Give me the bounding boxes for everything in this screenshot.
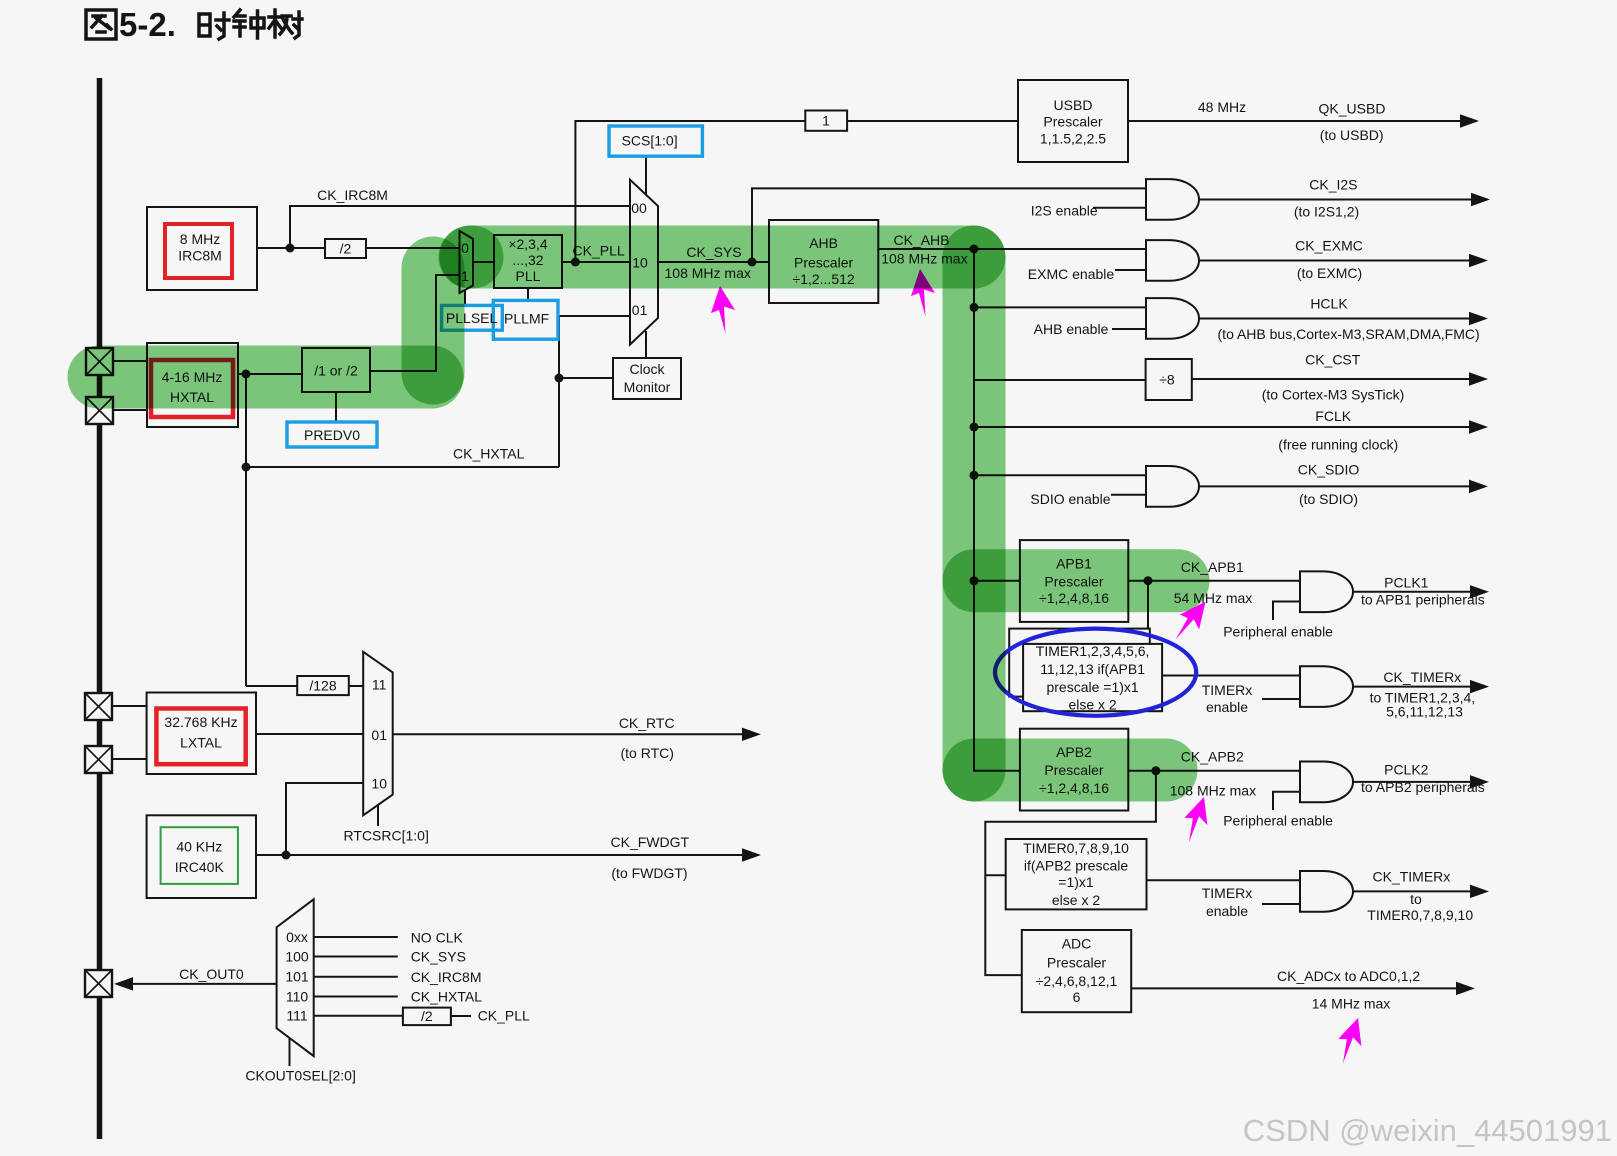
arrow CK_CST <box>1470 374 1485 385</box>
magenta arrow CK_APB2 <box>1184 797 1207 842</box>
svg-text:32.768 KHz: 32.768 KHz <box>164 714 237 730</box>
green highlight path <box>99 257 1178 770</box>
svg-text:11,12,13 if(APB1: 11,12,13 if(APB1 <box>1040 661 1145 677</box>
gate TIMERx0 <box>1300 871 1353 912</box>
gate TIMERx1 <box>1300 666 1353 707</box>
svg-text:CK_OUT0: CK_OUT0 <box>179 966 244 982</box>
box IRC8M outer <box>147 207 257 290</box>
svg-text:LXTAL: LXTAL <box>180 735 222 751</box>
TITLE <box>86 6 302 43</box>
wire PCLK2 enable stub <box>1273 792 1300 810</box>
mux PLLSEL (small) <box>460 231 474 293</box>
wire CK_APB1 down to TIMER1 box <box>1147 581 1149 629</box>
svg-text:÷8: ÷8 <box>1159 372 1175 388</box>
svg-text:CK_FWDGT: CK_FWDGT <box>611 834 690 850</box>
svg-text:÷2,4,6,8,12,1: ÷2,4,6,8,12,1 <box>1036 973 1118 989</box>
svg-text:TIMER0,7,8,9,10: TIMER0,7,8,9,10 <box>1023 840 1129 856</box>
wire PCLK1 gate output <box>1352 591 1472 593</box>
svg-text:if(APB2 prescale: if(APB2 prescale <box>1024 858 1128 874</box>
box /128 <box>297 676 349 695</box>
svg-text:8 MHz: 8 MHz <box>180 231 220 247</box>
wire to divide-by-8 <box>974 379 1146 381</box>
wire /2 bottom output to CK_PLL label <box>451 1015 471 1017</box>
arrow CK_TIMERx 1 <box>1471 681 1486 692</box>
svg-text:PREDV0: PREDV0 <box>304 427 360 443</box>
box clock monitor <box>613 358 681 399</box>
svg-text:prescale =1)x1: prescale =1)x1 <box>1046 679 1138 695</box>
wire TIMERx gate 1 output <box>1352 686 1472 688</box>
box TIMER1 front <box>1023 644 1162 711</box>
svg-text:FCLK: FCLK <box>1315 408 1351 424</box>
svg-text:else x 2: else x 2 <box>1052 892 1100 908</box>
svg-text:enable: enable <box>1206 903 1248 919</box>
wire HXTAL column down to /128 <box>245 374 247 686</box>
svg-text:5-2.: 5-2. <box>119 6 176 43</box>
wire TIMERx enable stub 2 <box>1262 903 1300 905</box>
wire /1or/2 to small mux input 1 <box>370 275 460 371</box>
arrow CK_OUT0 <box>117 979 132 990</box>
svg-text:SCS[1:0]: SCS[1:0] <box>622 133 678 149</box>
wire EXMC gate output <box>1199 260 1471 262</box>
wire CK_AHB output to EXMC gate <box>878 248 1146 250</box>
wire APB1 input <box>974 580 1020 582</box>
svg-text:48 MHz: 48 MHz <box>1198 99 1246 115</box>
wire SDIO gate output <box>1199 485 1471 487</box>
svg-text:NO CLK: NO CLK <box>411 929 464 945</box>
svg-text:Clock: Clock <box>629 361 665 377</box>
green highlight APB2 branch <box>974 739 1166 802</box>
wire LXTAL output to RTC mux 01 <box>256 733 363 735</box>
svg-text:TIMERx: TIMERx <box>1202 885 1253 901</box>
gate SDIO <box>1146 466 1199 507</box>
arrow CK_EXMC <box>1470 255 1485 266</box>
pin xbox HXTAL bottom <box>86 397 113 424</box>
svg-text:11: 11 <box>372 677 387 693</box>
wire HXTAL pin stubs <box>113 361 147 410</box>
svg-text:CK_TIMERx: CK_TIMERx <box>1373 868 1451 884</box>
wire CK_RTC output <box>393 733 744 735</box>
svg-text:RTCSRC[1:0]: RTCSRC[1:0] <box>344 827 429 843</box>
svg-text:1,1.5,2,2.5: 1,1.5,2,2.5 <box>1040 131 1106 147</box>
wire /1or/2 to PREDV0 <box>335 392 337 422</box>
wire AHB trunk vertical with elbow to APB2 <box>974 249 1020 771</box>
arrow PCLK2 <box>1471 777 1486 788</box>
box /2 bottom <box>403 1008 451 1026</box>
svg-text:10: 10 <box>371 776 387 792</box>
svg-text:CK_SDIO: CK_SDIO <box>1298 461 1360 477</box>
svg-text:CK_SYS: CK_SYS <box>411 948 466 964</box>
svg-text:1: 1 <box>822 113 830 129</box>
box divide-by-8 <box>1146 359 1192 400</box>
wire CKOUT0 mux input rows <box>314 937 398 997</box>
green highlight riser <box>402 268 465 373</box>
box IRC40K outer <box>147 815 256 898</box>
wire IRC40K output / CK_FWDGT <box>256 854 744 856</box>
arrow HCLK <box>1470 313 1485 324</box>
magenta arrow CK_SYS <box>711 286 735 334</box>
box PLLSEL blue <box>442 305 503 330</box>
green highlight HXTAL band <box>99 346 432 409</box>
svg-text:PLLMF: PLLMF <box>504 311 549 327</box>
wire RTCSRC stub <box>377 805 379 826</box>
wire IRC40K branch up to RTC mux 10 <box>286 783 363 855</box>
svg-text:/2: /2 <box>340 241 352 257</box>
magenta arrows <box>711 269 1361 1063</box>
svg-text:Prescaler: Prescaler <box>1047 954 1106 970</box>
wire AHB enable stub <box>1112 328 1146 330</box>
gate EXMC <box>1146 240 1199 281</box>
wire CK_APB2 output to PCLK2 gate <box>1128 770 1300 772</box>
wire TIMERx enable stub 1 <box>1262 698 1300 700</box>
svg-text:5,6,11,12,13: 5,6,11,12,13 <box>1386 703 1463 719</box>
svg-text:EXMC enable: EXMC enable <box>1028 266 1115 282</box>
wire CK_SYS branch up to I2S gate <box>752 188 1146 262</box>
svg-text:USBD: USBD <box>1054 97 1093 113</box>
wire EXMC enable stub <box>1115 269 1146 271</box>
svg-text:CKOUT0SEL[2:0]: CKOUT0SEL[2:0] <box>245 1068 356 1084</box>
wire CK_APB1 output to PCLK1 gate <box>1128 580 1300 582</box>
wire CK_HXTAL horizontal <box>246 466 559 468</box>
box ADC prescaler <box>1022 930 1131 1012</box>
wire SDIO enable stub <box>1111 494 1146 496</box>
svg-text:ADC: ADC <box>1062 936 1092 952</box>
svg-text:IRC40K: IRC40K <box>175 859 225 875</box>
svg-text:/128: /128 <box>309 678 336 694</box>
wire CKOUT0SEL stub <box>289 1038 291 1066</box>
wire I2S gate output <box>1199 199 1473 201</box>
svg-text:CSDN @weixin_44501991: CSDN @weixin_44501991 <box>1243 1113 1612 1148</box>
svg-text:40 KHz: 40 KHz <box>176 839 222 855</box>
svg-text:110: 110 <box>286 989 309 1005</box>
pin xbox CK_OUT0 <box>85 970 112 997</box>
svg-text:PCLK1: PCLK1 <box>1384 575 1429 591</box>
svg-text:(to I2S1,2): (to I2S1,2) <box>1294 204 1359 220</box>
svg-text:to: to <box>1410 891 1422 907</box>
box AHB prescaler <box>769 220 878 303</box>
svg-text:CK_EXMC: CK_EXMC <box>1295 238 1363 254</box>
wire big mux output CK_SYS <box>658 261 769 263</box>
wire TIMERx gate 2 output <box>1352 890 1472 892</box>
box IRC8M red inner <box>165 224 232 278</box>
svg-text:CK_CST: CK_CST <box>1305 352 1361 368</box>
svg-text:CK_HXTAL: CK_HXTAL <box>453 446 525 462</box>
svg-text:CK_HXTAL: CK_HXTAL <box>411 989 483 1005</box>
svg-text:PCLK2: PCLK2 <box>1384 762 1429 778</box>
wire SDIO row <box>974 474 1146 476</box>
svg-text:HCLK: HCLK <box>1310 296 1348 312</box>
arrow FCLK <box>1470 422 1485 433</box>
svg-text:(to AHB bus,Cortex-M3,SRAM,DMA: (to AHB bus,Cortex-M3,SRAM,DMA,FMC) <box>1218 326 1480 342</box>
arrow CK_RTC <box>743 729 758 740</box>
mux CKOUT0SEL <box>277 899 314 1056</box>
box APB2 prescaler <box>1020 729 1128 811</box>
arrow CK_ADCx <box>1457 983 1472 994</box>
svg-text:TIMER1,2,3,4,5,6,: TIMER1,2,3,4,5,6, <box>1036 643 1150 659</box>
box LXTAL red inner <box>156 709 245 765</box>
svg-text:(to Cortex-M3 SysTick): (to Cortex-M3 SysTick) <box>1262 387 1405 403</box>
svg-text:IRC8M: IRC8M <box>178 248 222 264</box>
box 1 (USB prescaler select) <box>805 111 847 131</box>
gate I2S <box>1146 179 1199 220</box>
wire FCLK row <box>974 426 1471 428</box>
title glyph 树 <box>269 10 302 38</box>
svg-text:TIMER0,7,8,9,10: TIMER0,7,8,9,10 <box>1367 907 1473 923</box>
wire big mux bottom to clock monitor <box>645 331 647 358</box>
title glyph 时 <box>199 13 229 39</box>
BASE DIAGRAM <box>85 78 1487 1139</box>
title glyph 图 <box>86 10 116 39</box>
wire small mux output to PLL <box>473 261 494 263</box>
wire I2S enable stub <box>1093 207 1146 209</box>
mux RTCSRC <box>363 652 393 816</box>
box /1 or /2 <box>302 348 370 392</box>
arrow USBD <box>1461 116 1476 127</box>
wire HXTAL output to /1or/2 <box>238 373 302 375</box>
svg-text:/2: /2 <box>421 1008 433 1024</box>
svg-text:Peripheral enable: Peripheral enable <box>1223 813 1333 829</box>
svg-text:111: 111 <box>286 1008 307 1024</box>
magenta arrow CK_ADC <box>1338 1018 1361 1063</box>
left rail (thick vertical bus line) <box>97 78 103 1139</box>
wire PLL to PLLMF <box>527 288 529 301</box>
svg-text:01: 01 <box>371 727 387 743</box>
pin xbox LXTAL bottom <box>85 746 112 773</box>
svg-text:14 MHz max: 14 MHz max <box>1312 996 1391 1012</box>
wire APB2 branch down-left to TIMER0 and ADC <box>985 771 1156 975</box>
svg-text:Peripheral enable: Peripheral enable <box>1223 623 1333 639</box>
svg-text:(to FWDGT): (to FWDGT) <box>611 865 687 881</box>
svg-text:SDIO enable: SDIO enable <box>1030 491 1110 507</box>
green highlight APB1 branch <box>974 549 1178 612</box>
box TIMER0 <box>1006 839 1147 909</box>
svg-text:101: 101 <box>285 969 309 985</box>
mux SCS (big) <box>630 180 658 345</box>
arrow CK_FWDGT <box>743 850 758 861</box>
gate PCLK1 <box>1300 571 1353 612</box>
wire CK_PLL branch up to 1-box and USBD <box>575 121 805 262</box>
wire /128 input <box>246 685 297 687</box>
arrow CK_SDIO <box>1470 481 1485 492</box>
svg-text:(free running clock): (free running clock) <box>1278 436 1398 452</box>
wire into TIMER0 <box>985 874 1005 876</box>
box /2 <box>325 239 366 258</box>
svg-text:else x 2: else x 2 <box>1068 697 1116 713</box>
wire SCS to big mux <box>645 157 647 195</box>
wire TIMER1 output to gate <box>1162 675 1300 677</box>
svg-text:01: 01 <box>632 302 648 318</box>
box HXTAL outer <box>147 343 238 427</box>
green highlight overlap blob at PLL mux <box>471 226 472 289</box>
wire /128 output to RTC mux 11 <box>349 685 363 687</box>
svg-text:(to USBD): (to USBD) <box>1320 127 1384 143</box>
box TIMER1 back <box>1009 629 1150 697</box>
box HXTAL red inner <box>151 360 233 417</box>
svg-text:Prescaler: Prescaler <box>1043 114 1102 130</box>
svg-text:CK_RTC: CK_RTC <box>619 715 675 731</box>
svg-text:CK_IRC8M: CK_IRC8M <box>411 969 482 985</box>
box LXTAL outer <box>147 693 256 775</box>
svg-text:QK_USBD: QK_USBD <box>1319 101 1386 117</box>
pin xbox LXTAL top <box>85 693 112 720</box>
wire /2 to small mux input 0 <box>366 247 460 249</box>
svg-text:to APB1 peripherals: to APB1 peripherals <box>1361 592 1485 608</box>
wire IRC8M output to /2 <box>257 247 325 249</box>
svg-text:00: 00 <box>631 200 647 216</box>
svg-text:CK_TIMERx: CK_TIMERx <box>1383 669 1461 685</box>
wire PCLK1 enable stub <box>1273 602 1300 621</box>
arrow CK_I2S <box>1472 194 1487 205</box>
box PLLMF blue <box>493 300 558 339</box>
svg-text:6: 6 <box>1073 989 1081 1005</box>
svg-text:enable: enable <box>1206 699 1248 715</box>
wire to clock monitor <box>559 377 613 379</box>
gate PCLK2 <box>1300 762 1353 803</box>
wire CK_HXTAL riser to big mux input 01 <box>559 316 630 467</box>
box USBD prescaler <box>1018 80 1128 162</box>
svg-text:(to SDIO): (to SDIO) <box>1299 491 1358 507</box>
ellipse highlight TIMER1 <box>995 629 1196 716</box>
svg-text:I2S enable: I2S enable <box>1031 203 1098 219</box>
svg-text:0xx: 0xx <box>286 929 308 945</box>
wire CKOUT0 mux input row 111 to /2 <box>314 1015 403 1017</box>
arrow PCLK1 <box>1471 587 1486 598</box>
svg-text:to APB2 peripherals: to APB2 peripherals <box>1361 779 1485 795</box>
green highlight CK_SYS band <box>470 226 974 289</box>
box PREDV0 blue <box>287 422 377 447</box>
wire TIMER0 output to gate <box>1147 879 1301 881</box>
wire CK_PLL to big mux input 10 <box>562 261 630 263</box>
wire small mux to PLLSEL <box>464 289 466 306</box>
wire PCLK2 gate output <box>1352 781 1472 783</box>
wire LXTAL pin stubs <box>113 706 147 759</box>
wire ADC output CK_ADCx <box>1131 987 1458 989</box>
svg-text:=1)x1: =1)x1 <box>1058 874 1094 890</box>
svg-text:CK_IRC8M: CK_IRC8M <box>317 187 388 203</box>
svg-text:CK_ADCx to ADC0,1,2: CK_ADCx to ADC0,1,2 <box>1277 968 1420 984</box>
svg-text:TIMERx: TIMERx <box>1202 682 1253 698</box>
wire CK_IRC8M up and to mux 00 <box>290 206 630 248</box>
box PLL <box>494 235 562 288</box>
arrow CK_TIMERx 2 <box>1471 886 1486 897</box>
wire AHB enable row <box>974 306 1146 308</box>
wire USBD output <box>1128 120 1462 122</box>
box APB1 prescaler <box>1020 540 1128 622</box>
pin xbox HXTAL top <box>86 348 113 375</box>
svg-text:100: 100 <box>285 949 309 965</box>
title glyph 钟 <box>234 10 264 38</box>
gate AHB <box>1146 298 1199 339</box>
wire CK_OUT0 output (left arrow) <box>130 983 277 985</box>
box SCS blue <box>609 126 702 156</box>
svg-text:Monitor: Monitor <box>624 379 671 395</box>
green highlight AHB trunk <box>943 257 1006 770</box>
wire CK_CST output <box>1192 378 1471 380</box>
svg-text:(to EXMC): (to EXMC) <box>1297 265 1362 281</box>
box IRC40K green inner <box>161 827 238 884</box>
magenta arrow CK_APB1 <box>1176 602 1206 640</box>
svg-text:AHB enable: AHB enable <box>1034 321 1109 337</box>
svg-text:(to RTC): (to RTC) <box>620 745 673 761</box>
svg-text:CK_PLL: CK_PLL <box>478 1008 530 1024</box>
wire AHB gate output HCLK <box>1199 318 1471 320</box>
magenta arrow CK_AHB <box>911 269 935 317</box>
svg-text:CK_I2S: CK_I2S <box>1309 177 1357 193</box>
